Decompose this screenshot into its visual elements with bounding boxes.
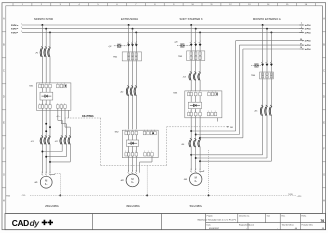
svg-text:2: 2	[267, 61, 268, 63]
svg-text:H: H	[3, 200, 5, 203]
wire SS2 out L2 to M2	[132, 156, 134, 172]
node bus tap L1 branch1	[41, 24, 43, 26]
wire branch4 L2 drop	[266, 29, 268, 64]
svg-text:27: 27	[300, 43, 302, 45]
wire TM3 out L1	[190, 61, 192, 74]
wire SS2 internal out L1	[128, 146, 130, 152]
overload relay TM3	[187, 51, 205, 61]
node bus tap L2 branch1	[45, 28, 47, 30]
wire Q2 to TM2 L2	[132, 47, 134, 52]
wire SS3 out L3	[199, 116, 201, 140]
wire bypass t2 drop	[60, 108, 62, 124]
arrow to node N8	[228, 126, 230, 128]
svg-text:H: H	[323, 200, 325, 203]
wire bus phase R	[22, 24, 302, 26]
wire TM3 out L3	[199, 61, 201, 74]
svg-text:01/06/1997: 01/06/1997	[209, 228, 220, 230]
svg-text:C: C	[323, 70, 325, 73]
wire SS1 out L1 to K1	[41, 108, 43, 137]
svg-text:1: 1	[21, 23, 22, 25]
wire M1 PE dashed link	[55, 173, 61, 175]
node bus tap L2 branch4	[266, 28, 268, 30]
node SS1 marked terminal	[65, 85, 67, 87]
wire SS1 aux KS drop	[68, 110, 70, 118]
wire P14 link L2 horizontal	[196, 134, 240, 136]
node P14 join L1	[190, 130, 192, 132]
wire TM2 out L1	[128, 61, 130, 87]
wire SS1 internal out L1	[41, 100, 43, 105]
wire SS3 internal out L1	[190, 109, 192, 113]
wire TM4 out L1	[262, 79, 264, 107]
wire K5 pole3 down	[270, 116, 272, 161]
wire K3 to SS3 L1	[190, 81, 192, 91]
contactor K5 3-pole	[260, 105, 272, 116]
wire SS3 aux out	[217, 118, 219, 122]
wire SS2 internal out L2	[132, 146, 134, 152]
svg-text:Total de folhas: Total de folhas	[282, 223, 294, 226]
svg-text:1: 1	[61, 103, 62, 105]
svg-text:1: 1	[42, 83, 43, 85]
frame row letters left	[3, 18, 5, 203]
wire bypass t3 drop	[64, 108, 66, 127]
node M2 PE junction	[146, 194, 148, 196]
wire branch3 L2 drop	[195, 29, 197, 44]
wire SS3 out L1	[190, 116, 192, 140]
svg-text:U: U	[49, 172, 50, 174]
svg-text:D: D	[3, 96, 5, 99]
svg-text:Equipamento: Equipamento	[239, 223, 250, 226]
wire K2M to SS2 L2	[132, 96, 134, 129]
SS3 thyristor symbol	[188, 102, 201, 108]
wire SS1 out L3 to K1	[49, 108, 51, 137]
svg-text:2: 2	[132, 41, 133, 43]
title block outline	[5, 214, 326, 230]
node bus tap L2 branch2	[132, 28, 134, 30]
frame row ticks left band	[2, 32, 6, 188]
node bypass jog 1	[58, 119, 62, 121]
svg-text:76: 76	[320, 219, 324, 223]
svg-text:U: U	[42, 172, 43, 174]
svg-text:50cv/380v: 50cv/380v	[190, 204, 203, 208]
P14 edge arrows	[299, 39, 311, 51]
wire K2M to SS2 L1	[128, 96, 130, 129]
SS2 output terminals 2 4 6	[125, 151, 138, 156]
wire SS3 out L2	[195, 116, 197, 140]
wire SS1 internal out L3	[49, 100, 51, 105]
SS3 input terminals 1 3 5	[188, 91, 202, 96]
wire bypass t1 drop	[57, 108, 59, 120]
wire SS1 internal L1	[41, 88, 43, 92]
svg-text:≫P14: ≫P14	[305, 31, 312, 34]
wire TM2 out L2	[132, 61, 134, 87]
svg-text:U: U	[128, 171, 129, 173]
wire K4 pole1 to motor	[190, 147, 192, 170]
SS1 bypass bottom terminals	[57, 103, 67, 108]
wire branch4 L3 drop	[270, 32, 272, 64]
wire bran3 L3 drop	[199, 32, 201, 44]
wire K2 pole3 join	[50, 161, 70, 163]
svg-text:-70%: -70%	[21, 195, 25, 197]
node tee to external L1	[190, 154, 192, 156]
wire branch1 L2 drop	[45, 29, 47, 48]
svg-text:3: 3	[21, 27, 22, 29]
wire bus phase S	[22, 28, 302, 30]
wire TM3 out L2	[195, 61, 197, 74]
wire branch2 L1 drop	[128, 25, 130, 44]
svg-text:14: 14	[300, 46, 302, 49]
svg-text:Moinhos e Triturador CDs 1 e 2: Moinhos e Triturador CDs 1 e 2 e PC1 P1	[198, 218, 237, 221]
breaker F1 3-pole	[40, 46, 51, 57]
frame column ticks top band	[13, 3, 315, 6]
svg-text:28: 28	[300, 39, 302, 41]
node bus tap L1 branch4	[262, 24, 264, 26]
svg-text:+L1+-: +L1+-	[56, 116, 61, 118]
contactor K4 3-pole	[189, 138, 201, 147]
svg-text:D: D	[323, 96, 325, 99]
wire SS1 internal L3	[49, 88, 51, 92]
overload relay TM2	[122, 52, 141, 61]
wire K4 pole3 to motor	[199, 147, 201, 170]
node tee to external L3	[199, 160, 201, 162]
svg-text:KS.7059A: KS.7059A	[82, 115, 94, 118]
svg-text:C: C	[3, 70, 5, 73]
node SS3 control marked terminal	[216, 93, 218, 95]
wire SS1 internal L2	[45, 88, 47, 92]
svg-text:1: 1	[199, 91, 200, 93]
wire branch3 L1 drop	[190, 25, 192, 44]
node tee to external L2	[195, 157, 197, 159]
wire branch1 L1 to SS1	[41, 57, 43, 83]
SS3 control terminals bottom	[207, 111, 217, 116]
motor M1 terminals U V W	[41, 172, 50, 175]
svg-text:G: G	[323, 174, 325, 177]
wire branch1 L2 to SS1	[45, 57, 47, 83]
title divider 3	[205, 214, 207, 230]
wire P14 link L2 to edge	[239, 44, 299, 46]
wire tee L1 to branch4	[191, 154, 262, 156]
wire SS2 aux to motor right	[151, 156, 153, 162]
wire SS2 internal L3	[135, 135, 137, 140]
breaker Q3 motor protection	[177, 41, 201, 47]
title divider 2	[161, 214, 163, 230]
title dividers bottom row	[247, 223, 249, 230]
wire PE bus dashed	[30, 194, 296, 196]
contactor K2M 3-pole	[126, 85, 137, 96]
svg-text:EXTRUSORA: EXTRUSORA	[121, 17, 138, 21]
node bus tap L3 branch2	[135, 31, 137, 33]
node bus tap L1 branch3	[190, 24, 192, 26]
frame right band	[321, 6, 323, 214]
svg-text:7: 7	[301, 23, 302, 25]
wire K2 pole2 join	[46, 156, 66, 158]
wire branch1 L3 to SS1	[49, 57, 51, 83]
wire bypass to K2 pole1	[61, 120, 63, 137]
wire Q4 to TM4 L3	[270, 66, 272, 72]
svg-text:SOFT STARTER 3: SOFT STARTER 3	[180, 17, 203, 21]
svg-text:1: 1	[61, 83, 62, 85]
svg-text:≫P14: ≫P14	[305, 28, 312, 31]
node bus tap L3 branch1	[49, 31, 51, 33]
svg-text:U: U	[200, 169, 201, 171]
node join L1	[41, 151, 43, 153]
SS2 control terminals bottom	[144, 151, 154, 156]
wire K1 pole1 to motor	[41, 145, 43, 174]
svg-text:1: 1	[128, 151, 129, 153]
SS2 control terminals top	[143, 130, 156, 135]
wire SS2 internal out L3	[135, 146, 137, 152]
svg-text:1: 1	[199, 111, 200, 113]
breaker Q4 motor protection	[251, 61, 273, 67]
wire Q4 to TM4 L2	[266, 66, 268, 72]
svg-text:5: 5	[301, 31, 302, 33]
wire K2 pole3 down	[69, 145, 71, 162]
wire P14 link L1 to edge	[236, 40, 300, 42]
motor M1 250cv	[40, 176, 52, 188]
motor M2 390cv	[126, 174, 139, 187]
wire SS3 internal L1	[190, 96, 192, 102]
wire tee L2 to branch4	[196, 157, 267, 159]
SS2 thyristor symbol	[126, 140, 138, 146]
wire TM2 out L3	[135, 61, 137, 87]
node tap b1	[45, 123, 47, 125]
wire K2 pole1 join	[42, 151, 62, 153]
wire K5 pole1 down	[262, 116, 264, 155]
SS3 control terminals top	[208, 91, 218, 96]
wire P14 link L2 vertical	[238, 45, 240, 134]
wire branch1 L1 drop	[41, 25, 43, 48]
wire bypass to K2 pole2	[65, 124, 67, 137]
wire SS1 out L2 to K1	[45, 108, 47, 137]
motor M3 50cv	[190, 173, 202, 185]
node bus tap L1 branch2	[128, 24, 130, 26]
wire SS3 internal L2	[195, 96, 197, 102]
wire TM4 out L3	[270, 79, 272, 107]
bus right arrows to P14	[299, 23, 311, 34]
wire branch2 L3 drop	[135, 32, 137, 44]
contactor K2 bypass 3-pole	[60, 135, 71, 144]
wire P14 link L3 vertical	[242, 49, 244, 138]
wire branch1 L3 drop	[49, 32, 51, 48]
svg-text:Projeto: Projeto	[207, 214, 213, 217]
svg-text:⇾P13: ⇾P13	[297, 195, 302, 198]
wire M1 PE stub	[50, 174, 55, 176]
frame column numbers	[22, 4, 308, 6]
wire K1 pole2 to motor	[45, 145, 47, 174]
node tap b1 lower	[45, 130, 47, 132]
wire P14 link L3 to edge	[243, 48, 300, 50]
svg-text:✚✚: ✚✚	[42, 219, 54, 227]
overload relay TM4	[260, 72, 274, 79]
wire SS2 out L1 to M2	[128, 156, 130, 172]
wire K5 pole2 down	[266, 116, 268, 158]
node tap c1	[49, 126, 51, 128]
svg-text:Posição folha: Posição folha	[302, 223, 314, 226]
wire SS3 internal out L2	[195, 109, 197, 113]
svg-text:5: 5	[21, 31, 22, 33]
SS1 output terminals 2 4 6	[39, 103, 52, 108]
wire Q3 to TM3 L2	[195, 46, 197, 51]
wire K3 to SS3 L3	[199, 81, 201, 91]
wire SS2 out L3 to M2	[135, 156, 137, 172]
wire M1 PE drop	[59, 174, 61, 196]
svg-text:U: U	[132, 171, 133, 173]
node join L2	[45, 156, 47, 158]
wire SS2 internal L2	[132, 135, 134, 140]
svg-text:MOINHO M700: MOINHO M700	[34, 17, 53, 21]
svg-text:U: U	[195, 169, 196, 171]
wire P14 link L1 horizontal	[191, 130, 236, 132]
wire SS3 internal L3	[199, 96, 201, 102]
wire K3 to SS3 L2	[195, 81, 197, 91]
wire TM4 out L2	[266, 79, 268, 107]
node M3 PE junction	[208, 194, 210, 196]
svg-text:3: 3	[301, 27, 302, 29]
wire M3 PE drop dashed	[208, 150, 210, 195]
wire Q2 to TM2 L1	[128, 47, 130, 52]
title block row split	[206, 222, 326, 224]
svg-text:Local: Local	[250, 224, 255, 226]
wire control link KS.7059A dashed	[65, 117, 101, 119]
wire K4 pole2 to motor	[195, 147, 197, 170]
SS1 bypass top terminals	[57, 83, 67, 88]
bus source labels R1/N S1/N T1/N	[11, 22, 22, 34]
title dividers top row	[237, 214, 239, 223]
wire bypass to K2 pole3	[69, 127, 71, 137]
wire K1 pole3 to motor	[49, 145, 51, 174]
wire tee L3 to branch4	[200, 160, 271, 162]
wire M3 aux stub	[200, 171, 204, 173]
svg-text:2: 2	[136, 41, 137, 43]
title block logo cell	[92, 214, 94, 230]
wire SS1 internal out L2	[45, 100, 47, 105]
wire K2 pole1 down	[61, 145, 63, 152]
svg-text:U: U	[46, 172, 47, 174]
svg-text:CAD: CAD	[12, 218, 29, 228]
node SS2 control marked terminal	[152, 132, 154, 134]
svg-text:1: 1	[128, 130, 129, 132]
soft starter U3 SS3 outline	[185, 91, 222, 118]
node P14 join L2	[195, 134, 197, 136]
svg-text:≫P14: ≫P14	[305, 24, 312, 27]
node bus tap L2 branch3	[195, 28, 197, 30]
panel enclosure dashed boundary	[100, 118, 102, 166]
breaker Q2 motor protection	[114, 41, 138, 47]
node bus tap L3 branch4	[270, 31, 272, 33]
wire branch4 L1 drop	[262, 25, 264, 64]
wire K2M to SS2 L3	[135, 96, 137, 129]
wire SS2 internal L1	[128, 135, 130, 140]
SS2 input terminals 1 3 5	[125, 130, 138, 135]
svg-text:Ind.: Ind.	[267, 215, 271, 217]
contactor K3 3-pole	[189, 71, 201, 80]
node M1 PE junction	[59, 194, 61, 196]
wire P14 link L3 horizontal	[200, 137, 243, 139]
motor M3 terminals U V W	[190, 169, 201, 172]
wire Q3 to TM3 L3	[199, 46, 201, 51]
soft starter U2 SS2 outline	[122, 130, 158, 157]
svg-text:250cv/380v: 250cv/380v	[45, 204, 59, 208]
svg-text:G: G	[3, 174, 5, 177]
node join L3	[49, 161, 51, 163]
svg-text:Desenho no.: Desenho no.	[239, 215, 250, 217]
svg-text:dy: dy	[30, 218, 40, 228]
svg-text:MOINHO EXTERNO A: MOINHO EXTERNO A	[253, 17, 281, 21]
svg-text:≫P14: ≫P14	[305, 40, 312, 43]
wire Q3 to TM3 L1	[190, 46, 192, 51]
svg-text:390cv/380v: 390cv/380v	[126, 204, 140, 208]
soft starter U1 SS1 outline	[36, 83, 71, 110]
wire Q2 to TM2 L3	[135, 47, 137, 52]
svg-text:U: U	[136, 171, 137, 173]
svg-text:1: 1	[42, 103, 43, 105]
svg-text:1: 1	[212, 91, 213, 93]
svg-text:≫P14: ≫P14	[305, 44, 312, 47]
svg-text:Rev.: Rev.	[282, 215, 286, 217]
svg-text:U: U	[191, 169, 192, 171]
wire bus phase T	[22, 31, 302, 33]
wire K2 pole2 down	[65, 145, 67, 157]
svg-text:≫P14: ≫P14	[305, 48, 312, 51]
node P14 join L3	[199, 137, 201, 139]
SS1 thyristor symbol	[40, 92, 53, 100]
title block texts	[198, 214, 325, 230]
wire Q4 to TM4 L1	[262, 66, 264, 72]
logo CADdy++	[12, 218, 54, 228]
node bus tap L3 branch3	[199, 31, 201, 33]
wire M2 PE drop dashed	[146, 166, 148, 196]
wire branch2 L2 drop	[132, 29, 134, 45]
motor M2 terminals U V W	[128, 171, 137, 174]
SS1 input terminals 1 3 5	[39, 83, 52, 88]
wire SS3 internal out L3	[199, 109, 201, 113]
svg-text:R,N: R,N	[6, 196, 10, 198]
SS3 output terminals 2 4 6	[188, 111, 202, 116]
wire P14 link L1 vertical	[235, 41, 237, 131]
contactor K1 3-pole	[40, 135, 51, 144]
